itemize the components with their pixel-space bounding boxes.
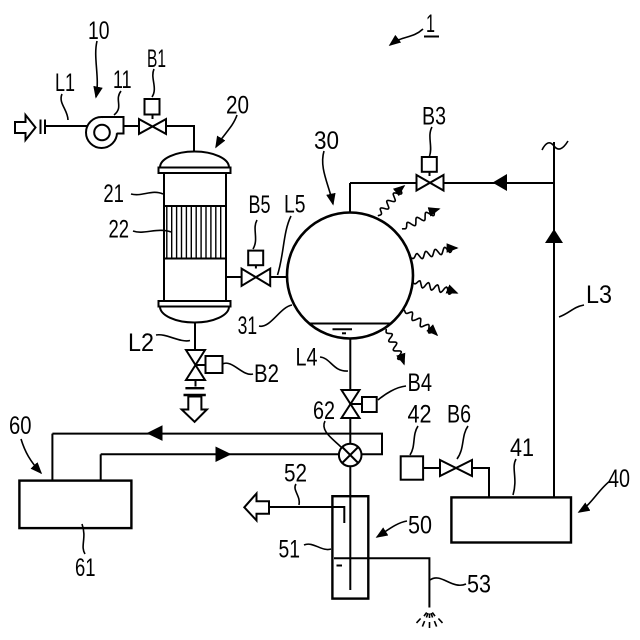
leader B5 [253,220,257,249]
wire duct upper run [52,434,382,455]
duct flow arrow left [147,425,163,441]
radiation arrow 4 [412,281,457,294]
leader 21 [131,192,163,194]
sphere 30 [287,213,413,339]
box 42 [401,456,423,479]
svg-text:B6: B6 [447,400,471,428]
vent break bars below B2 [184,388,206,395]
valve B4 [342,390,377,418]
vessel 50 internal pipe [349,497,351,590]
wire sphere top riser [349,183,351,214]
leader 10 [96,41,98,97]
valve B1 [139,99,166,134]
leader 52 [295,484,299,505]
wire box 42 to valve B6 to box 41 [423,468,489,497]
radiation arrow 5 [404,310,437,335]
radiation arrow 6 [386,329,404,364]
wire 52 outlet from vessel 50 [270,507,345,523]
svg-text:30: 30 [314,127,339,155]
svg-text:B1: B1 [147,45,166,73]
radiation arrow 3 [410,247,457,258]
fan 62 [339,444,362,467]
svg-text:40: 40 [608,465,630,493]
svg-text:B4: B4 [408,369,433,397]
valve B6 [440,460,472,476]
vessel 50 level dash [337,565,343,567]
vessel 50 [332,496,368,598]
wire vessel 20 outlet to valve B5 [226,276,243,278]
svg-text:L2: L2 [128,329,154,357]
box 61 [19,481,131,528]
svg-text:62: 62 [313,397,335,425]
leader L4 [320,357,348,371]
leader B3 [430,127,433,156]
svg-text:B3: B3 [422,103,446,131]
leader 61 [82,524,85,554]
wire L2 vessel 20 bottom to valve B2 [194,322,196,352]
leader L1 [61,94,68,120]
svg-text:31: 31 [238,312,258,340]
label 1 underline [424,36,439,38]
wire L3 vertical [553,142,555,497]
svg-text:41: 41 [510,434,534,462]
svg-text:L1: L1 [55,69,75,97]
valve B2 [186,350,223,380]
svg-text:B2: B2 [254,360,279,388]
valve B5 [242,251,271,286]
leader B6 [457,426,468,459]
wire top horizontal to L3 [350,182,554,184]
leader 62 [324,421,341,447]
wire duct upper-left drop to box 61 [51,434,53,481]
leader 40 [579,481,610,512]
wire valve B1 to vessel 20 top [166,126,195,156]
svg-text:53: 53 [467,571,491,599]
wire vessel 50 level outlet to sprinkler [334,558,429,607]
leader 20 [216,115,237,147]
leader 1 [390,29,423,45]
svg-text:L3: L3 [586,281,612,309]
wire L4 sphere bottom through valve B4 and fan 62 to vessel 50 [349,338,351,590]
svg-text:L5: L5 [284,191,306,219]
leader 50 [377,521,407,537]
inlet hollow arrow [15,115,36,140]
svg-text:10: 10 [88,17,110,45]
pipe tick marks [41,120,46,135]
vessel 50 dip tube [332,507,344,523]
flow arrow on L3 (up) [545,229,563,243]
leader L5 [278,216,292,275]
leader B1 [152,69,154,97]
svg-text:60: 60 [9,412,32,440]
valve B3 [417,157,444,191]
leader B4 [378,386,406,400]
vessel 50 level line [334,557,368,559]
wire duct lower-left drop to box 61 [100,454,102,480]
radiation arrow 2 [402,209,439,229]
wire L1 inlet to pump [46,125,87,127]
svg-text:B5: B5 [249,191,271,219]
svg-text:1: 1 [426,10,435,38]
svg-text:22: 22 [109,216,130,244]
leader B2 [223,363,254,374]
leader 51 [304,544,331,549]
hollow left arrow 52 [244,494,269,521]
pump 11 [86,117,124,148]
svg-text:42: 42 [408,400,432,428]
vessel 20 [159,152,231,323]
leader 41 [513,459,516,495]
flow arrow on top line (left) [493,174,508,191]
radiation arrow 1 [378,186,404,216]
leader L2 [156,335,190,341]
liquid level in sphere 31 [310,324,391,334]
L3 top break squiggle [542,141,568,150]
wire pump to valve B1 [124,125,141,127]
svg-text:61: 61 [75,554,96,582]
svg-text:11: 11 [113,66,132,94]
duct flow arrow right [216,447,232,463]
leader 31 [259,305,292,326]
leader L3 [559,305,584,317]
svg-text:21: 21 [103,180,124,208]
sprinkler 53 [417,613,443,629]
svg-text:L4: L4 [296,344,318,372]
vent hollow down arrow [182,397,207,422]
svg-text:52: 52 [284,460,307,488]
vessel 20 packing 22 hatch [164,206,226,259]
leader 53 [430,578,466,585]
svg-text:51: 51 [279,536,301,564]
leader 42 [410,426,418,455]
leader 22 [133,230,171,232]
svg-text:20: 20 [226,92,249,120]
wire duct lower run [101,453,339,455]
leader 60 [21,439,41,473]
leader 30 [323,151,333,204]
box 41 [451,497,571,542]
wire below valve B2 to vent [195,379,197,387]
wire L5 valve B5 to sphere 30 [270,276,289,278]
svg-text:50: 50 [408,512,432,540]
leader 11 [114,91,121,115]
